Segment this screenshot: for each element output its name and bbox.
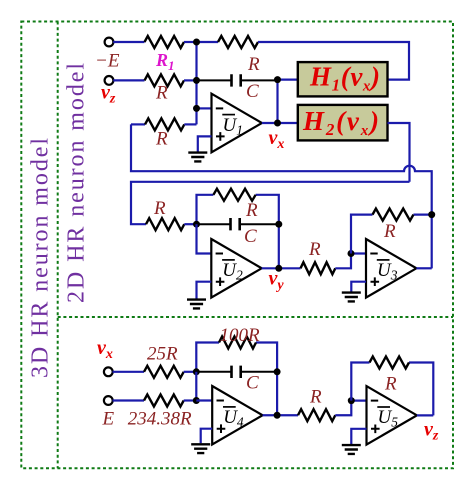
svg-text:234.38R: 234.38R <box>128 409 192 430</box>
wire A : U3 output feedback to R row3, with hop over H2 drop <box>131 124 432 268</box>
wire U4 inverting input <box>196 399 212 401</box>
node U4 output <box>274 412 281 419</box>
resistor R between U4 U5 <box>298 409 335 421</box>
wire U2 + input to ground <box>197 282 212 299</box>
wire to U5 inverting input <box>335 401 366 416</box>
wire R to node U2 <box>184 223 196 225</box>
svg-text:R: R <box>247 54 260 75</box>
svg-text:R: R <box>153 198 166 219</box>
wire R row2 to node <box>184 79 197 81</box>
node vy <box>275 265 282 272</box>
wire U2 inverting input <box>197 224 212 253</box>
ground U5 <box>342 445 361 454</box>
block H1(vx) <box>298 62 388 96</box>
vertical input bus U4 <box>195 372 197 401</box>
terminal vz input <box>105 76 114 85</box>
node U4 input <box>193 368 200 375</box>
ground U1 <box>188 153 207 162</box>
svg-text:R: R <box>155 83 168 104</box>
svg-text:C: C <box>246 81 259 102</box>
wire vx to 25R <box>113 371 145 373</box>
op-amp U2 <box>211 239 261 298</box>
wire top feedback to H1 output <box>258 42 409 80</box>
wire H1 input <box>278 78 298 80</box>
svg-text:R: R <box>383 221 396 242</box>
terminal vx bottom <box>104 367 113 376</box>
op-amp U3 <box>366 239 416 298</box>
resistor R feedback U5 <box>370 357 409 369</box>
wire U3 output <box>416 267 431 269</box>
resistor R feedback U2 <box>213 189 255 201</box>
wire U3 + input to ground <box>351 282 366 292</box>
op-amp U5 <box>367 386 417 445</box>
wire U4 output to R <box>263 414 298 416</box>
wire U5 output <box>417 414 433 416</box>
svg-text:R: R <box>155 129 168 150</box>
block H2(vx) <box>298 105 388 140</box>
svg-text:100R: 100R <box>219 325 260 346</box>
wire feedback loop U5 <box>351 363 433 416</box>
wire node to feedback resistor R top <box>197 41 219 43</box>
svg-text:C: C <box>244 226 257 247</box>
wire R3 to bus <box>184 123 196 125</box>
wire U1 + input to ground <box>198 136 212 151</box>
wire vx node up to C and H1 <box>276 80 278 123</box>
svg-text:2D HR neuron model: 2D HR neuron model <box>64 63 90 303</box>
wire U5 + input to ground <box>351 429 366 444</box>
wire feedback loop 100R <box>196 343 277 416</box>
node U2 cap right <box>275 221 282 228</box>
resistor 100R <box>219 337 256 349</box>
wire R3 lead <box>131 123 145 125</box>
wire 25R to node <box>184 371 197 373</box>
wire feedback loop U3 <box>351 215 432 254</box>
vertical input bus wire U1 <box>195 42 197 124</box>
node U4 cap right <box>274 368 281 375</box>
wire vz to R <box>113 79 144 81</box>
2D / 3D section divider dashed line <box>58 316 453 318</box>
svg-text:R: R <box>245 200 258 221</box>
wire -E to R1 <box>113 41 144 43</box>
terminal E <box>104 396 113 405</box>
node row2 bus <box>193 77 200 84</box>
node U4 inverting <box>193 397 200 404</box>
resistor R1 <box>145 36 184 48</box>
wire R1 to node <box>184 41 197 43</box>
resistor R row2 <box>145 74 184 86</box>
resistor 25R <box>144 366 184 378</box>
node H1 input <box>274 76 281 83</box>
svg-text:R: R <box>308 239 321 260</box>
wire U1 output to H2 <box>262 122 298 124</box>
wire feedback loop U2 <box>197 195 279 269</box>
svg-text:C: C <box>246 373 259 394</box>
resistor R row3 <box>145 118 184 130</box>
capacitor C1 leads <box>197 79 278 81</box>
svg-text:E: E <box>101 409 114 430</box>
terminal -E <box>105 38 114 47</box>
svg-text:3D HR neuron model: 3D HR neuron model <box>28 138 54 378</box>
wire 234.38R to node <box>184 399 197 401</box>
capacitor C4 leads <box>196 371 277 373</box>
svg-text:R: R <box>384 374 397 395</box>
wire E to 234.38R <box>113 399 145 401</box>
wire U2 output to R <box>262 267 301 269</box>
resistor R between U2 U3 <box>301 262 336 274</box>
node inverting U1 <box>193 105 200 112</box>
capacitor C2 leads <box>197 223 279 225</box>
node U5 input <box>348 397 355 404</box>
svg-text:−E: −E <box>95 51 120 72</box>
ground U3 <box>342 293 361 302</box>
resistor 234.38R <box>144 395 184 407</box>
capacitor C4 plates <box>232 366 241 378</box>
resistor R feedback U3 <box>373 209 414 221</box>
resistor R input U2 <box>146 218 184 230</box>
wire H2 output down <box>388 123 410 182</box>
svg-text:R: R <box>309 387 322 408</box>
wire U4 + input to ground <box>201 429 213 444</box>
node vx <box>274 120 281 127</box>
node U3 input <box>348 250 355 257</box>
capacitor C1 plates <box>232 74 241 86</box>
op-amp U4 <box>212 386 262 445</box>
ground U2 <box>187 300 206 309</box>
capacitor C2 plates <box>231 218 240 230</box>
wire inverting input U1 <box>197 107 212 109</box>
resistor R top feedback <box>218 36 258 48</box>
2D HR neuron model dashed border left edge <box>57 22 59 469</box>
wire B : H2 output feed to U2 input <box>131 182 410 224</box>
ground U4 <box>191 444 210 453</box>
op-amp U1 <box>212 94 262 153</box>
node U3 feedback right <box>428 211 435 218</box>
wire to U3 inverting input <box>335 254 366 269</box>
svg-text:25R: 25R <box>147 344 178 365</box>
node row1 bus <box>193 39 200 46</box>
node U2 input <box>193 221 200 228</box>
